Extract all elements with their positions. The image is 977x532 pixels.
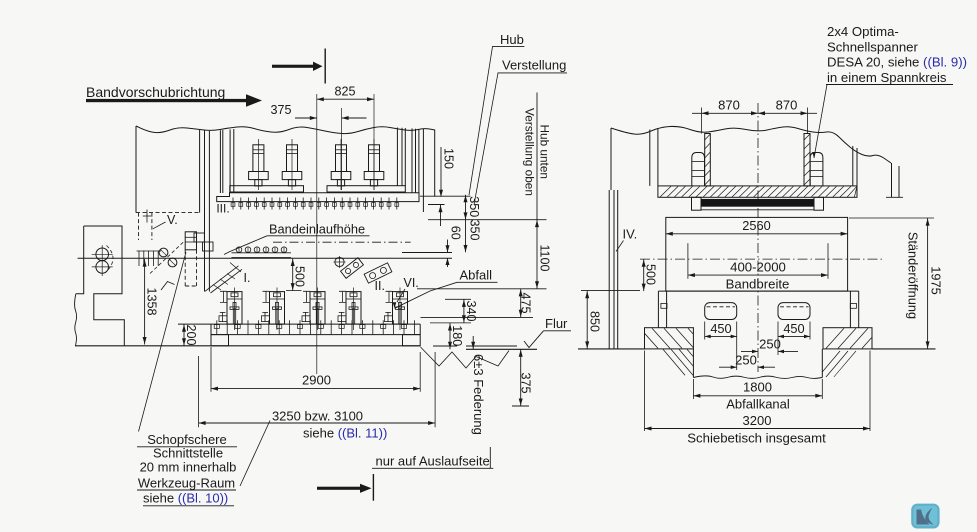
dimension 250 upper [741,337,798,354]
stripper line 60 above band [402,252,452,254]
vertical dimension line Hub unten / Verstellung oben / 1100 [523,93,552,289]
band clamp ticks cluster [137,251,162,267]
svg-text:V.: V. [167,213,178,227]
dimension 475 [518,289,532,318]
dimension 1975 Staenderoeffnung [849,218,943,349]
svg-text:DESA 20, siehe ((Bl. 9)): DESA 20, siehe ((Bl. 9)) [827,55,967,70]
die cushion left [705,303,737,320]
press base left foot [211,335,229,346]
die top reference tick for 500 dim [286,290,302,292]
dimension 500 right view [642,259,658,291]
dimension 450 right [778,321,810,355]
svg-text:1800: 1800 [743,380,772,395]
dimension 350 (Hub) and 350 (Verstellung) [464,195,482,253]
bottom arrow symbol (outlet side) [317,487,360,490]
die cushion right [778,303,810,320]
lower die station 4 at x=353.5 [338,288,361,331]
dimension 400-2000 Bandbreite [688,243,828,291]
tick under 180 arrow [433,345,457,347]
dimension 3200 Schiebetisch [645,351,871,446]
upper die plate right segment [327,186,405,192]
svg-text:850: 850 [587,311,601,332]
svg-text:150: 150 [442,148,456,169]
DESA clamp right [810,153,823,186]
falling scrap piece A (tilted) [341,258,364,279]
lower die station 1 at x=234.5 [219,288,242,331]
dimension 250 lower [719,352,775,369]
svg-text:475: 475 [518,292,532,313]
dimension 340 [430,299,478,323]
dimension 6+-3 Federung [472,336,474,349]
svg-text:nur auf Auslaufseite: nur auf Auslaufseite [376,454,490,469]
right guide strip hatched [804,134,810,186]
svg-text:siehe ((Bl. 10)): siehe ((Bl. 10)) [143,491,228,506]
svg-text:II.: II. [375,279,385,293]
svg-text:180: 180 [450,325,464,346]
svg-text:Bandeinlaufhöhe: Bandeinlaufhöhe [269,222,365,237]
band line (Bandeinlaufhoehe level) [78,257,452,259]
svg-text:3200: 3200 [743,413,772,428]
svg-text:Verstellung oben: Verstellung oben [523,108,537,196]
tilted roll pair dashed (opened position) [150,242,184,274]
dimension 500 die space [291,258,307,290]
note block Schopfschere [137,432,237,491]
svg-text:Verstellung: Verstellung [502,58,566,73]
reference line Hub unten y=219.7 [428,219,547,221]
dimension 2900 [211,347,420,392]
dimension 2560 [666,218,848,236]
cropping shear (Schopfschere) [185,232,196,286]
svg-text:350: 350 [467,196,481,217]
dimension 3250 bzw 3100 [199,352,436,427]
feed stand wavy broken left edge [75,294,77,346]
die space box 2560 [666,217,848,291]
support strut diagonals [205,266,239,292]
right view: right column inner lines [852,146,854,186]
machine centerline dash-dot [757,103,759,372]
dimension 180 [448,323,464,349]
svg-text:siehe ((Bl. 11)): siehe ((Bl. 11)) [303,426,387,441]
dimension 850 [585,291,601,349]
die top reference line y=288.8 [417,288,547,290]
svg-text:IV.: IV. [623,227,638,242]
svg-text:2560: 2560 [742,218,770,233]
svg-text:870: 870 [776,98,798,113]
leader from note to clamp [814,85,827,159]
lower die station 5 at x=400 [385,288,408,331]
svg-text:Bandvorschubrichtung: Bandvorschubrichtung [86,84,225,100]
svg-text:60: 60 [448,226,462,240]
upper reference dash-dot line [273,241,411,243]
svg-text:350: 350 [468,219,482,240]
left view: middle column lines [396,128,398,186]
right side reference line y=204.5 [428,204,445,206]
svg-text:Ständeröffnung: Ständeröffnung [906,232,921,319]
band support rail with rollers [232,247,292,258]
right view: crown left edge [610,128,612,190]
svg-text:Bandbreite: Bandbreite [726,277,790,292]
svg-text:375: 375 [519,372,533,393]
bolster top reference line y=317.4 [421,316,534,318]
svg-text:450: 450 [710,321,731,336]
left view: crown left edge [135,126,137,213]
svg-text:Schnellspanner: Schnellspanner [827,39,919,54]
left view: right guide column lines [411,128,413,193]
dimension 870 left and 870 right [692,98,817,134]
spring zigzag below floor (Federung) [421,347,510,368]
press base right foot [403,335,421,346]
svg-text:870: 870 [718,98,740,113]
sprung table line 6+-3 [466,345,517,347]
svg-text:Hub unten: Hub unten [538,125,552,179]
bottom plate line under black bar [701,209,814,211]
svg-text:20 mm innerhalb: 20 mm innerhalb [140,460,237,475]
right view: table line left segment [581,290,640,292]
svg-text:6±3 Federung: 6±3 Federung [471,354,486,435]
upper punch 4 at x=374 [364,139,384,190]
svg-text:250: 250 [759,337,781,352]
falling scrap piece B (tilted) [364,263,392,283]
right view: crown wavy break top edge [611,126,891,163]
svg-text:1975: 1975 [928,266,943,294]
svg-text:in einem Spannkreis: in einem Spannkreis [827,70,947,85]
dimension 1358 with approx mark [143,259,175,345]
floor line under press [75,345,421,347]
svg-text:400-2000: 400-2000 [730,260,786,275]
svg-text:Abfallkanal: Abfallkanal [726,397,790,412]
upper punch 2 at x=292 [282,139,302,190]
small up arrow at 204.5 line [440,205,442,227]
dimension 450 left [705,321,737,370]
upper die plate left segment [230,186,304,192]
scrap piece with circle cross [334,256,346,268]
svg-text:Flur: Flur [545,316,568,331]
svg-text:III.: III. [216,202,229,216]
left view: inner column lines group 2 [219,130,221,193]
dimension 150 [439,147,456,197]
svg-text:Schiebetisch insgesamt: Schiebetisch insgesamt [687,431,826,446]
bolster T-bolts [214,320,414,334]
DESA clamp left [692,153,705,186]
clamp bolts under bar [231,198,399,210]
leader from 3250 to note block [240,421,270,487]
svg-text:825: 825 [334,85,355,99]
left view: crown right edge lines [422,129,424,212]
upper punch 3 at x=341 [331,139,351,190]
svg-text:200: 200 [184,324,198,345]
svg-text:2x4 Optima-: 2x4 Optima- [827,24,899,39]
left view: left column lines [199,130,201,213]
dimension 375 below floor [512,349,533,406]
bar side tab right [814,197,824,210]
table side plate right with T-slot [850,291,858,328]
logo bottom right [912,505,938,528]
svg-text:1358: 1358 [145,287,159,315]
svg-text:Werkzeug-Raum: Werkzeug-Raum [138,476,235,491]
scrap pit walls and wavy bottom [692,349,694,378]
feed rolls circles with crosshairs [92,245,113,276]
note 2x4 Optima-Schnellspanner [827,24,919,54]
dimension 60 [446,226,463,267]
svg-text:Hub: Hub [500,32,524,47]
right side reference line y=196 [420,195,471,197]
upper clamp bar [217,193,419,202]
floor line right segment right view [872,348,936,350]
floor line right of press [466,348,537,350]
feed direction thick arrow [86,99,246,102]
leader from shear to note block [139,252,187,432]
left view: small cross mark [143,215,151,217]
dimension 825 [317,85,374,375]
right view: left stand lines [608,190,610,349]
lower die station 2 at x=277 [262,288,285,331]
left view: dashed guide below left stand [138,213,140,240]
lower die station 3 at x=317.5 [302,288,325,331]
svg-text:VI.: VI. [404,276,419,290]
left guide strip hatched [705,134,711,186]
dimension 200 [182,324,198,346]
svg-text:I.: I. [244,271,251,285]
table side plate left with T-slot [658,291,667,328]
right view: left column inner lines [649,130,651,186]
die clamping black bar [701,199,814,206]
table top line [658,290,858,292]
svg-text:3250 bzw. 3100: 3250 bzw. 3100 [272,409,363,424]
floor line left segment right view [578,348,645,350]
svg-text:Schnittstelle: Schnittstelle [153,446,223,461]
ram bottom hatched plate [658,186,857,197]
feed roll swing dashed arc [106,246,114,273]
dimension 375 [270,103,366,190]
dimension 1800 Abfallkanal [693,379,822,412]
top arrow symbol (band run-in) [272,65,313,68]
svg-text:250: 250 [735,352,757,367]
svg-text:Abfall: Abfall [460,268,493,283]
bolster plate [178,323,420,325]
right view: crown right edge [891,163,893,197]
left view: dashed bottom line of left stand [136,212,200,214]
svg-text:500: 500 [293,266,307,287]
band inlet bracket on column [194,233,204,242]
svg-text:450: 450 [783,321,804,336]
feed stand outline [84,226,125,346]
bar side tab left [692,197,702,210]
svg-text:1100: 1100 [537,244,551,271]
band line right view dash-dot [640,258,882,260]
svg-text:340: 340 [464,300,478,321]
svg-text:375: 375 [270,103,291,117]
left view: press crown wavy break top edge [136,126,435,134]
svg-text:2900: 2900 [302,373,331,388]
upper punch 1 at x=258.4 [249,139,269,190]
svg-text:500: 500 [644,264,658,285]
